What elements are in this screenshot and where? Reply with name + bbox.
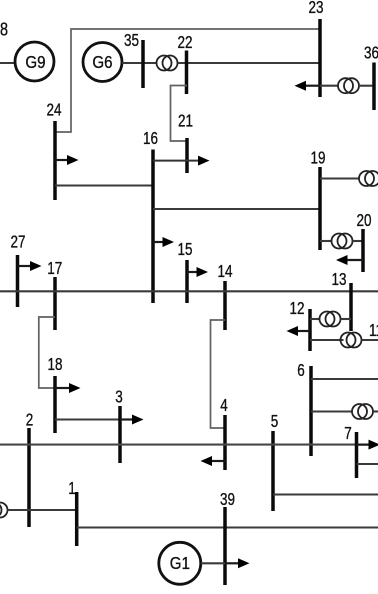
bus 12	[308, 309, 312, 351]
bus 15	[185, 260, 189, 303]
bus 35	[141, 40, 145, 88]
load arrow bus 18	[55, 383, 81, 393]
svg-text:38: 38	[0, 20, 8, 40]
bus 1	[75, 492, 79, 546]
bus 36	[372, 63, 376, 111]
load arrow bus 15	[187, 267, 208, 277]
node 6 label	[297, 361, 305, 380]
node 13 label	[331, 270, 346, 289]
wire 12 to transformer 12-11	[310, 339, 344, 341]
node 1 label	[68, 479, 76, 498]
wire transformer to node 11	[362, 339, 378, 341]
wire line 7-8	[357, 463, 378, 465]
node 22 label	[177, 33, 192, 52]
node 7 label	[344, 424, 352, 443]
bus 13	[349, 283, 353, 331]
wire transformer to bus 13	[341, 318, 352, 320]
wire 12 to transformer 12-13	[310, 318, 320, 320]
bus 3	[118, 406, 122, 463]
node 11 label	[369, 321, 378, 340]
node 23 label	[308, 0, 323, 18]
svg-text:16: 16	[143, 129, 158, 148]
node 20 label	[356, 211, 371, 230]
bus 20	[361, 229, 365, 272]
wire 6 to transformer 6-31	[311, 410, 352, 412]
load arrow bus 20	[336, 255, 363, 265]
svg-text:15: 15	[177, 240, 192, 259]
wire line 16-19	[153, 208, 320, 210]
bus 16	[151, 150, 155, 304]
node 17 label	[47, 259, 62, 278]
svg-text:G9: G9	[25, 52, 45, 73]
svg-text:5: 5	[271, 412, 279, 431]
wire line 5-8	[273, 493, 378, 495]
wire G6 to bus35 to transformer	[122, 62, 157, 64]
svg-text:18: 18	[47, 355, 62, 374]
node 27 label	[10, 233, 25, 252]
main chain line 26-27-17-16-15-14-13-10	[0, 290, 378, 292]
svg-text:39: 39	[220, 490, 235, 509]
svg-text:G1: G1	[170, 553, 190, 574]
bus 27	[16, 255, 20, 307]
svg-text:4: 4	[220, 396, 228, 415]
svg-text:27: 27	[10, 233, 25, 252]
svg-text:36: 36	[364, 44, 378, 63]
svg-text:23: 23	[308, 0, 323, 18]
wire line 4-14	[211, 320, 226, 428]
wire line 6-11	[311, 378, 378, 380]
wire transformer to bus 20	[353, 240, 364, 242]
svg-text:11: 11	[369, 321, 378, 340]
load arrow bus 27	[18, 261, 42, 271]
bus 17	[53, 277, 57, 330]
wire line 16-21 with load arrow bus 21	[153, 156, 210, 166]
generator G1	[159, 542, 201, 584]
transformer T12-13	[320, 312, 341, 327]
load arrow bus 12	[287, 326, 311, 336]
svg-text:21: 21	[178, 112, 193, 131]
wire 23 to transformer 23-36	[320, 85, 338, 87]
transformer T2-30 at left edge	[0, 503, 8, 518]
bus 2	[27, 428, 31, 527]
load arrow bus 24	[55, 155, 79, 165]
svg-text:35: 35	[124, 31, 139, 50]
bus 23	[318, 19, 322, 97]
node 3 label	[115, 388, 123, 407]
bus 21	[185, 138, 189, 173]
bus 14	[223, 281, 227, 330]
transformer T12-11	[341, 333, 362, 348]
transformer T22-35	[157, 56, 178, 71]
node 5 label	[271, 412, 279, 431]
node 35 label	[124, 31, 139, 50]
node 39 label	[220, 490, 235, 509]
node 21 label	[178, 112, 193, 131]
bus 39	[223, 507, 227, 585]
node 12 label	[289, 299, 304, 318]
wire bus38 to G9	[0, 62, 17, 64]
bus 24	[53, 121, 57, 200]
wire transformer to edge	[373, 410, 378, 412]
transformer T19-33	[359, 171, 378, 186]
svg-text:24: 24	[46, 101, 61, 120]
svg-text:1: 1	[68, 479, 76, 498]
wire 19 to transformer 19-33	[320, 177, 359, 179]
wire line 16-24	[55, 184, 153, 186]
transformer T6-31	[352, 404, 373, 419]
svg-text:7: 7	[344, 424, 352, 443]
node 18 label	[47, 355, 62, 374]
load arrow bus 39	[225, 558, 250, 568]
transformer T19-20	[332, 234, 353, 249]
node 24 label	[46, 101, 61, 120]
svg-text:17: 17	[47, 259, 62, 278]
svg-text:12: 12	[289, 299, 304, 318]
wire line 23-24	[55, 29, 320, 132]
bus 22	[185, 51, 189, 95]
bus 7	[355, 432, 359, 478]
wire G1 to bus 39	[201, 562, 225, 564]
wire transformer to bus 36	[359, 85, 374, 87]
wire line 18-3	[55, 418, 120, 420]
svg-text:20: 20	[356, 211, 371, 230]
node 19 label	[310, 149, 325, 168]
wire line 17-18	[39, 317, 55, 388]
transformer T23-36	[338, 78, 359, 93]
bus 5	[271, 431, 275, 511]
svg-text:22: 22	[177, 33, 192, 52]
node 14 label	[217, 262, 232, 281]
load arrow bus 7	[357, 440, 378, 450]
load arrow bus 4	[201, 456, 226, 466]
node 2 label	[26, 411, 34, 430]
wire line 1-39-9	[77, 526, 378, 528]
bus 19	[318, 167, 322, 250]
svg-text:G6: G6	[92, 52, 112, 73]
generator G9	[15, 42, 54, 81]
load arrow bus 23	[295, 81, 321, 91]
bus 4	[223, 415, 227, 470]
svg-text:3: 3	[115, 388, 123, 407]
bus 18	[53, 376, 57, 433]
generator G6	[83, 43, 122, 82]
svg-text:6: 6	[297, 361, 305, 380]
node 15 label	[177, 240, 192, 259]
svg-text:13: 13	[331, 270, 346, 289]
wire line 22-23	[178, 62, 321, 64]
node 36 label	[364, 44, 378, 63]
wire line 21-22	[171, 86, 188, 142]
load arrow bus 3	[120, 415, 144, 425]
wire line 1-2	[8, 509, 77, 511]
svg-text:2: 2	[26, 411, 34, 430]
svg-text:19: 19	[310, 149, 325, 168]
bus 6	[309, 366, 313, 456]
load arrow bus 16 lower	[153, 237, 174, 247]
chain line 2-3-4-5-6-7	[0, 444, 378, 446]
node 38 label	[0, 20, 8, 40]
node 16 label	[143, 129, 158, 148]
svg-text:14: 14	[217, 262, 232, 281]
wire 19 to transformer 19-20	[320, 240, 332, 242]
node 4 label	[220, 396, 228, 415]
